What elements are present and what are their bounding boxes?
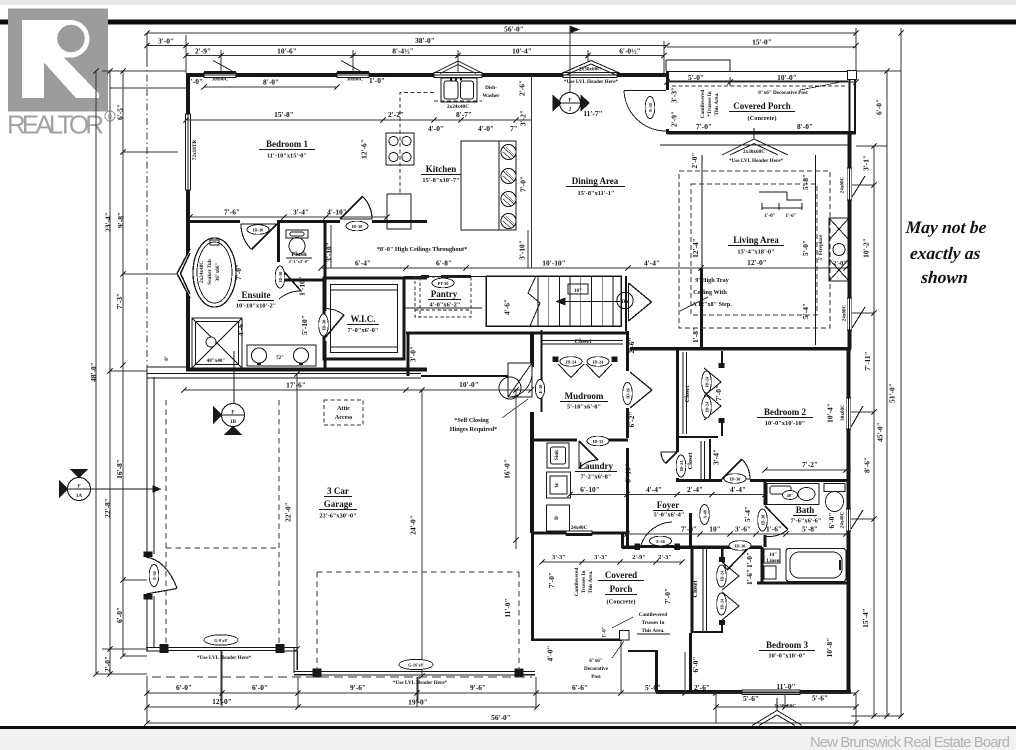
window bed2 east 30x60C — [846, 398, 863, 429]
marker F1A left — [60, 470, 161, 501]
svg-text:Ceiling With: Ceiling With — [693, 289, 727, 296]
svg-text:9'-8": 9'-8" — [116, 212, 125, 228]
svg-text:ID-30: ID-30 — [735, 544, 746, 549]
svg-text:8'-4½": 8'-4½" — [392, 47, 414, 56]
svg-text:15'-8"x10'-7": 15'-8"x10'-7" — [422, 177, 459, 184]
wall: porch west / dining east — [666, 71, 669, 90]
wall: pantry top — [404, 276, 486, 278]
bay window soaker tub — [177, 249, 190, 298]
left extension horizontals — [102, 70, 186, 72]
stairs door wedge — [629, 283, 652, 321]
svg-text:10'-8": 10'-8" — [825, 638, 834, 658]
svg-text:3'-2": 3'-2" — [519, 110, 528, 126]
svg-text:2'-6": 2'-6" — [518, 80, 527, 96]
svg-text:Bedroom 2: Bedroom 2 — [764, 407, 807, 417]
door closet2 — [661, 452, 677, 463]
svg-text:G-16'x8': G-16'x8' — [408, 663, 424, 668]
svg-text:10'-0": 10'-0" — [459, 380, 479, 389]
wall: garage front step — [284, 647, 298, 650]
tag hall-garage E-B — [535, 380, 544, 399]
tag bed1 door ID-30 — [247, 225, 269, 235]
WIC box outer — [324, 278, 404, 359]
truss dining window — [558, 61, 624, 76]
svg-text:3'-0": 3'-0" — [409, 346, 418, 362]
svg-text:3'-4": 3'-4" — [712, 449, 721, 465]
svg-text:10'-0"x10'-0": 10'-0"x10'-0" — [768, 653, 805, 660]
svg-text:ID-30: ID-30 — [322, 320, 327, 331]
svg-text:E-30: E-30 — [648, 103, 653, 112]
svg-text:9'-6": 9'-6" — [470, 683, 486, 692]
tag flush ID-30 — [275, 266, 285, 288]
svg-text:6'-5": 6'-5" — [116, 104, 125, 120]
wall: bed3 closet inner — [721, 547, 723, 560]
svg-text:10'-0": 10'-0" — [777, 73, 797, 82]
bed3 closet shelves — [703, 549, 707, 631]
svg-text:PT-30: PT-30 — [438, 281, 449, 286]
svg-text:1'-0": 1'-0" — [187, 77, 203, 86]
svg-text:11'-0": 11'-0" — [503, 598, 512, 617]
dim row bed1 south — [190, 216, 387, 218]
svg-text:7'-6"x6'-6": 7'-6"x6'-6" — [791, 518, 822, 525]
dim row porch 5'-0"/10'-0" — [667, 81, 856, 83]
svg-text:2x30x60C: 2x30x60C — [579, 67, 601, 73]
svg-text:shown: shown — [920, 267, 969, 287]
dim row 7'-2" y470 — [765, 469, 851, 471]
svg-text:ID-24: ID-24 — [593, 360, 604, 365]
svg-text:2: 2 — [569, 107, 572, 113]
svg-text:3'-3": 3'-3" — [594, 554, 607, 561]
dim row 2'-9"/10'-6"/8'-4.5"/10'-4"/6'-0.5" — [186, 55, 664, 57]
flush toilet — [286, 230, 308, 255]
svg-text:23'-4": 23'-4" — [104, 212, 113, 232]
svg-text:15'-0": 15'-0" — [752, 38, 772, 47]
tag bed3 closet ID-24 b — [717, 593, 727, 615]
svg-text:23'-6"x30'-0": 23'-6"x30'-0" — [319, 513, 356, 520]
wall: bath west — [764, 481, 767, 505]
svg-text:2x24x48C: 2x24x48C — [199, 261, 205, 283]
wall: living west — [700, 268, 703, 349]
svg-text:16'-8": 16'-8" — [115, 459, 124, 479]
svg-text:Closet: Closet — [692, 580, 699, 598]
soaker tub oval — [193, 238, 236, 307]
svg-text:*Trusses In: *Trusses In — [707, 91, 713, 117]
svg-text:2'-6": 2'-6" — [627, 337, 636, 353]
svg-text:Mudroom: Mudroom — [565, 391, 604, 401]
svg-text:10'-4": 10'-4" — [826, 403, 835, 423]
truss bed3 window — [752, 698, 802, 726]
svg-text:E-36: E-36 — [152, 570, 157, 579]
svg-text:Cantilevered: Cantilevered — [574, 568, 580, 597]
svg-text:*8'-0" High Ceilings Throughou: *8'-0" High Ceilings Throughout* — [377, 246, 467, 253]
svg-text:*Self Closing: *Self Closing — [454, 417, 489, 424]
svg-text:This Area.: This Area. — [588, 570, 594, 594]
tub faucet — [210, 240, 219, 245]
svg-text:8'-0": 8'-0" — [797, 122, 813, 131]
dim row foyer y494 — [570, 494, 765, 496]
pantry shelf dashes — [415, 309, 471, 311]
svg-text:5'-0": 5'-0" — [688, 73, 704, 82]
svg-text:38'-0": 38'-0" — [415, 36, 435, 45]
svg-text:1'-8": 1'-8" — [691, 327, 700, 343]
svg-text:4'-6": 4'-6" — [503, 299, 512, 315]
left dim verticals — [95, 71, 97, 674]
svg-text:3'-3": 3'-3" — [552, 554, 565, 561]
kitchen island — [461, 141, 516, 230]
svg-text:REALTOR: REALTOR — [7, 110, 104, 140]
svg-text:5'-0"x6'-4": 5'-0"x6'-4" — [654, 512, 685, 519]
svg-text:6'-0": 6'-0" — [827, 512, 836, 528]
window kitchen sink — [434, 73, 482, 78]
svg-text:1'-6": 1'-6" — [766, 525, 782, 534]
svg-text:6'-8": 6'-8" — [436, 259, 452, 268]
svg-text:*Use LVL Header Here*: *Use LVL Header Here* — [564, 79, 619, 85]
wall: bed2 closet inner — [721, 351, 723, 366]
wall: bed3 closet bottom — [692, 631, 722, 633]
door bath — [766, 530, 788, 537]
svg-text:6'-10": 6'-10" — [580, 485, 600, 494]
svg-text:4'-0": 4'-0" — [428, 124, 444, 133]
wall: bed2 closet divider — [677, 436, 718, 438]
bottom black rule — [0, 726, 1016, 729]
dim flag top — [570, 26, 579, 33]
header flag bed1 a — [204, 61, 236, 73]
wall: stairs/closet block right — [625, 276, 627, 331]
REALTOR logo block — [8, 9, 108, 112]
svg-text:56'-0": 56'-0" — [491, 713, 511, 722]
svg-text:4'-4": 4'-4" — [730, 485, 746, 494]
window living east a 24x60C — [847, 168, 865, 200]
svg-text:3'-10": 3'-10" — [325, 242, 334, 262]
svg-text:4'-4": 4'-4" — [646, 485, 662, 494]
wall: pantry west — [403, 277, 406, 331]
tag bed3 closet ID-24 a — [717, 565, 727, 587]
dryer — [547, 505, 570, 531]
tag bath ID-30 — [758, 509, 768, 531]
svg-text:8'-7": 8'-7" — [456, 110, 472, 119]
WIC shelves — [331, 290, 398, 347]
svg-text:Decorative: Decorative — [584, 666, 609, 672]
svg-text:5'-6": 5'-6" — [743, 694, 759, 703]
svg-text:5'-10": 5'-10" — [300, 315, 309, 335]
svg-text:7'-2": 7'-2" — [802, 460, 818, 469]
svg-text:Hinges Required*: Hinges Required* — [450, 426, 498, 433]
tag laundry ID-32 — [587, 436, 609, 446]
svg-text:12'-0": 12'-0" — [747, 258, 767, 267]
kitchen column dim line — [531, 75, 533, 268]
svg-text:72x18TR: 72x18TR — [192, 140, 198, 160]
shower 48x48 — [192, 318, 242, 368]
tag dining-porch E-30 — [645, 97, 655, 119]
wall: bed3 closet west — [691, 547, 694, 633]
svg-text:ID-32: ID-32 — [593, 439, 604, 444]
door bed1 entry — [340, 196, 372, 219]
svg-text:ID-30: ID-30 — [352, 224, 363, 229]
svg-text:*Use LVL Header Here*: *Use LVL Header Here* — [197, 655, 252, 661]
svg-text:4'-10": 4'-10" — [327, 208, 347, 217]
window bed3 south 2x30x60C — [742, 690, 800, 694]
wall: hall-WIC north — [401, 277, 427, 280]
svg-text:Closet: Closet — [687, 452, 694, 470]
svg-text:56'-0": 56'-0" — [504, 25, 524, 34]
svg-text:Covered: Covered — [605, 570, 637, 580]
pantry floor line — [405, 307, 482, 309]
svg-text:48"x48": 48"x48" — [207, 358, 226, 364]
svg-text:7": 7" — [510, 124, 518, 133]
svg-text:Access: Access — [335, 414, 353, 421]
wall: closet2 inner — [709, 439, 711, 481]
svg-text:Cantilevered: Cantilevered — [700, 90, 706, 119]
svg-text:10'-10"x10'-2": 10'-10"x10'-2" — [236, 303, 276, 310]
bath vanity — [767, 484, 819, 505]
door mudroom-hall — [630, 372, 652, 408]
svg-text:16'-0": 16'-0" — [503, 459, 512, 479]
tag foyer A-48 — [700, 505, 710, 525]
garage vertical dims — [296, 374, 298, 651]
porch east edge — [850, 71, 856, 132]
attic access dashed box — [324, 400, 363, 425]
svg-text:10": 10" — [574, 288, 582, 294]
tag bed2 closet ID-24 a — [702, 371, 712, 393]
stool 4 — [501, 214, 516, 229]
svg-text:ID-24: ID-24 — [679, 460, 684, 471]
window bath east 24x40C — [846, 509, 863, 531]
right dim verticals — [900, 33, 902, 716]
wall: laundry bottom — [532, 531, 628, 534]
dim row 1'-0"/8'-0" — [204, 86, 337, 88]
door E-36 garage side — [144, 552, 178, 600]
wall: bed1 south — [186, 220, 240, 223]
stairs box — [486, 276, 621, 326]
May not be exactly as shown (script) — [901, 217, 988, 287]
svg-text:7'-0"x6'-0": 7'-0"x6'-0" — [348, 327, 379, 334]
window top wall bed1 b — [337, 73, 369, 78]
wall: foyer east / bed3 approach — [689, 513, 692, 547]
closet2 shelves — [701, 441, 705, 479]
svg-text:3 Car: 3 Car — [327, 486, 349, 496]
door foyer front E-36 — [641, 522, 672, 545]
mudroom closet doors (bifold V) — [558, 364, 584, 378]
tag closet ID-24 a — [560, 357, 582, 367]
svg-text:7'-0": 7'-0" — [234, 264, 243, 280]
living tray dashed outer — [679, 171, 830, 328]
svg-text:5'-0": 5'-0" — [645, 683, 661, 692]
porch top edge lines — [666, 60, 856, 81]
svg-text:Flush: Flush — [291, 251, 307, 258]
wall: foyer south / closet3 top — [622, 546, 636, 549]
stairs 10" box — [568, 284, 588, 294]
svg-text:2'-9": 2'-9" — [670, 111, 679, 127]
svg-text:4'-4": 4'-4" — [644, 259, 660, 268]
svg-text:Foyer: Foyer — [657, 500, 680, 510]
kitchen counter dashed — [400, 93, 434, 194]
svg-text:24x40C: 24x40C — [571, 525, 588, 531]
svg-text:2'-9": 2'-9" — [195, 47, 211, 56]
dim 38'-0" / 15'-0" — [147, 45, 667, 47]
wall: living/bed2 south-north spine — [630, 347, 851, 351]
svg-text:Trusses In: Trusses In — [642, 620, 665, 626]
svg-text:8'-10": 8'-10" — [624, 463, 633, 483]
svg-text:8"x6" Decorative Post: 8"x6" Decorative Post — [758, 90, 808, 96]
svg-text:Soaker Tub: Soaker Tub — [207, 259, 213, 285]
svg-text:(Concrete): (Concrete) — [607, 599, 636, 606]
wall: porch bottom (living north) — [667, 131, 856, 135]
wall: entry porch slab bottom — [532, 638, 622, 640]
interior dim row y268 — [321, 267, 851, 269]
svg-text:15'-4": 15'-4" — [861, 608, 870, 628]
svg-text:Closet: Closet — [574, 338, 592, 345]
door: garage self-closing leaf — [499, 363, 532, 399]
svg-text:Dish-: Dish- — [485, 85, 497, 91]
svg-text:48'-0": 48'-0" — [89, 362, 98, 382]
svg-text:7'-0": 7'-0" — [663, 588, 672, 604]
svg-text:9' High Tray: 9' High Tray — [695, 277, 729, 284]
svg-text:19'-0": 19'-0" — [408, 698, 428, 707]
svg-text:ID-30: ID-30 — [730, 477, 741, 482]
svg-text:5'-8": 5'-8" — [801, 174, 810, 190]
wall: hall west — [407, 333, 410, 376]
wall: top exterior (bedroom1/kitchen/dining) — [186, 73, 667, 77]
marker F1B garage — [214, 351, 245, 435]
svg-text:Living Area: Living Area — [733, 235, 779, 245]
bottom dim rows — [147, 692, 856, 694]
svg-text:Dining Area: Dining Area — [572, 176, 619, 186]
dim row bath y534 — [627, 533, 846, 535]
svg-text:2'-6": 2'-6" — [694, 683, 710, 692]
wall: jog garage to ensuite — [147, 366, 186, 368]
svg-text:1'-0": 1'-0" — [369, 76, 385, 85]
wall: bed2/bed3 east exterior — [847, 349, 851, 694]
wall: bed3 west below closet — [689, 633, 692, 693]
svg-text:30x60C: 30x60C — [347, 77, 364, 83]
svg-text:ID-36: ID-36 — [626, 387, 631, 398]
pantry dashed box — [415, 277, 471, 317]
window living east b 24x60C — [847, 298, 865, 330]
svg-text:Porch: Porch — [610, 584, 633, 594]
stool 2 — [501, 169, 516, 184]
svg-text:W: W — [555, 482, 561, 488]
fireplace — [829, 218, 849, 281]
svg-text:2'-4": 2'-4" — [687, 485, 703, 494]
svg-text:1'-10": 1'-10" — [298, 276, 307, 296]
cantilever porch dashed — [672, 85, 846, 87]
svg-text:3'-4": 3'-4" — [293, 208, 309, 217]
svg-text:1'-6": 1'-6" — [745, 569, 754, 585]
svg-text:12'-6": 12'-6" — [360, 139, 369, 159]
wall: bed2 west / hall east — [676, 349, 679, 452]
stairs break zigzag — [528, 276, 540, 326]
svg-text:8'-6": 8'-6" — [863, 457, 872, 473]
linen closet boxes — [764, 549, 780, 563]
garage door 16x8 opening — [321, 671, 515, 674]
mudroom closet shelf — [542, 341, 623, 345]
svg-text:10'-6": 10'-6" — [277, 47, 297, 56]
wall: ensuite/WIC bottom — [186, 368, 427, 372]
svg-text:10": 10" — [709, 525, 721, 534]
door flush — [279, 266, 301, 299]
tag bed1 entry ID-30 — [346, 221, 368, 231]
svg-text:1B: 1B — [230, 419, 237, 425]
svg-text:30x60C: 30x60C — [840, 404, 846, 421]
svg-text:*Use LVL Header Here*: *Use LVL Header Here* — [729, 158, 784, 164]
svg-text:6'-6": 6'-6" — [572, 683, 588, 692]
window laundry bottom 24x40C — [566, 531, 592, 535]
wall: corridor bottom (pantry to closet) — [406, 332, 628, 335]
garage door dashed track right — [317, 572, 519, 671]
wall: linen east — [761, 547, 764, 583]
fridge — [387, 194, 411, 229]
svg-text:30x60C: 30x60C — [212, 77, 229, 83]
svg-text:*Use LVL Header Here*: *Use LVL Header Here* — [393, 680, 448, 686]
tag pantry PT-30 — [432, 278, 454, 288]
window dining — [563, 73, 617, 78]
svg-text:Covered Porch: Covered Porch — [733, 101, 790, 111]
svg-text:2'-9": 2'-9" — [632, 554, 645, 561]
svg-text:5' Fireplace: 5' Fireplace — [818, 234, 824, 261]
right extension horizontals — [856, 70, 901, 72]
top black bar — [0, 20, 1016, 25]
svg-text:1'-0": 1'-0" — [602, 626, 608, 637]
svg-text:F: F — [231, 410, 234, 416]
wall: entry porch step — [628, 650, 658, 652]
tag WIC ID-30 — [319, 314, 329, 336]
kitchen double sink — [441, 78, 477, 102]
svg-text:8'-0": 8'-0" — [263, 78, 279, 87]
tag garage side E-36 — [149, 565, 159, 587]
wall: flush south — [278, 279, 326, 282]
svg-text:10'-10": 10'-10" — [542, 259, 565, 268]
svg-text:4'-0"x6'-2": 4'-0"x6'-2" — [430, 302, 461, 309]
svg-text:5'-8": 5'-8" — [802, 525, 818, 534]
garage door dashed track left — [166, 400, 279, 647]
svg-text:exactly as: exactly as — [909, 243, 981, 263]
svg-text:ID-30: ID-30 — [761, 515, 766, 526]
window left wall 72x18TR — [186, 114, 191, 190]
svg-text:ID-24: ID-24 — [566, 360, 577, 365]
tag bath vanity 48 — [783, 491, 798, 500]
wall: left exterior bedroom1/ensuite — [186, 73, 190, 371]
svg-text:6'-4": 6'-4" — [355, 259, 371, 268]
svg-text:2'-2": 2'-2" — [388, 110, 404, 119]
svg-text:1'-0": 1'-0" — [764, 213, 775, 219]
washer — [547, 472, 571, 498]
tag closet2 ID-24 — [676, 455, 686, 477]
svg-text:22'-8": 22'-8" — [103, 498, 112, 518]
bottom extension verticals — [146, 676, 148, 723]
svg-text:W.I.C.: W.I.C. — [351, 314, 376, 324]
svg-text:3'-3": 3'-3" — [670, 87, 679, 103]
svg-text:Linen: Linen — [767, 558, 780, 564]
svg-text:4'-0": 4'-0" — [478, 124, 494, 133]
svg-text:2'-0": 2'-0" — [690, 152, 699, 168]
svg-text:72": 72" — [276, 355, 284, 361]
bed2 closet bifold doors — [704, 368, 721, 396]
wall: closet west — [541, 330, 543, 412]
wall: mudroom/laundry east — [626, 331, 629, 371]
svg-text:Closet: Closet — [684, 385, 691, 403]
svg-text:Attic: Attic — [337, 405, 350, 412]
living tray dashed inner — [691, 184, 817, 315]
svg-text:7'-3": 7'-3" — [115, 293, 124, 309]
door hall-bed2 wing — [722, 459, 750, 479]
svg-text:3'-1": 3'-1" — [862, 155, 871, 171]
door laundry — [579, 441, 598, 468]
svg-text:Ensuite: Ensuite — [241, 290, 270, 300]
svg-text:5'-4": 5'-4" — [801, 303, 810, 319]
wall: mudroom/laundry divider — [532, 438, 577, 441]
svg-text:10'-4": 10'-4" — [512, 47, 532, 56]
bathtub — [786, 549, 846, 582]
svg-text:D: D — [554, 516, 560, 520]
